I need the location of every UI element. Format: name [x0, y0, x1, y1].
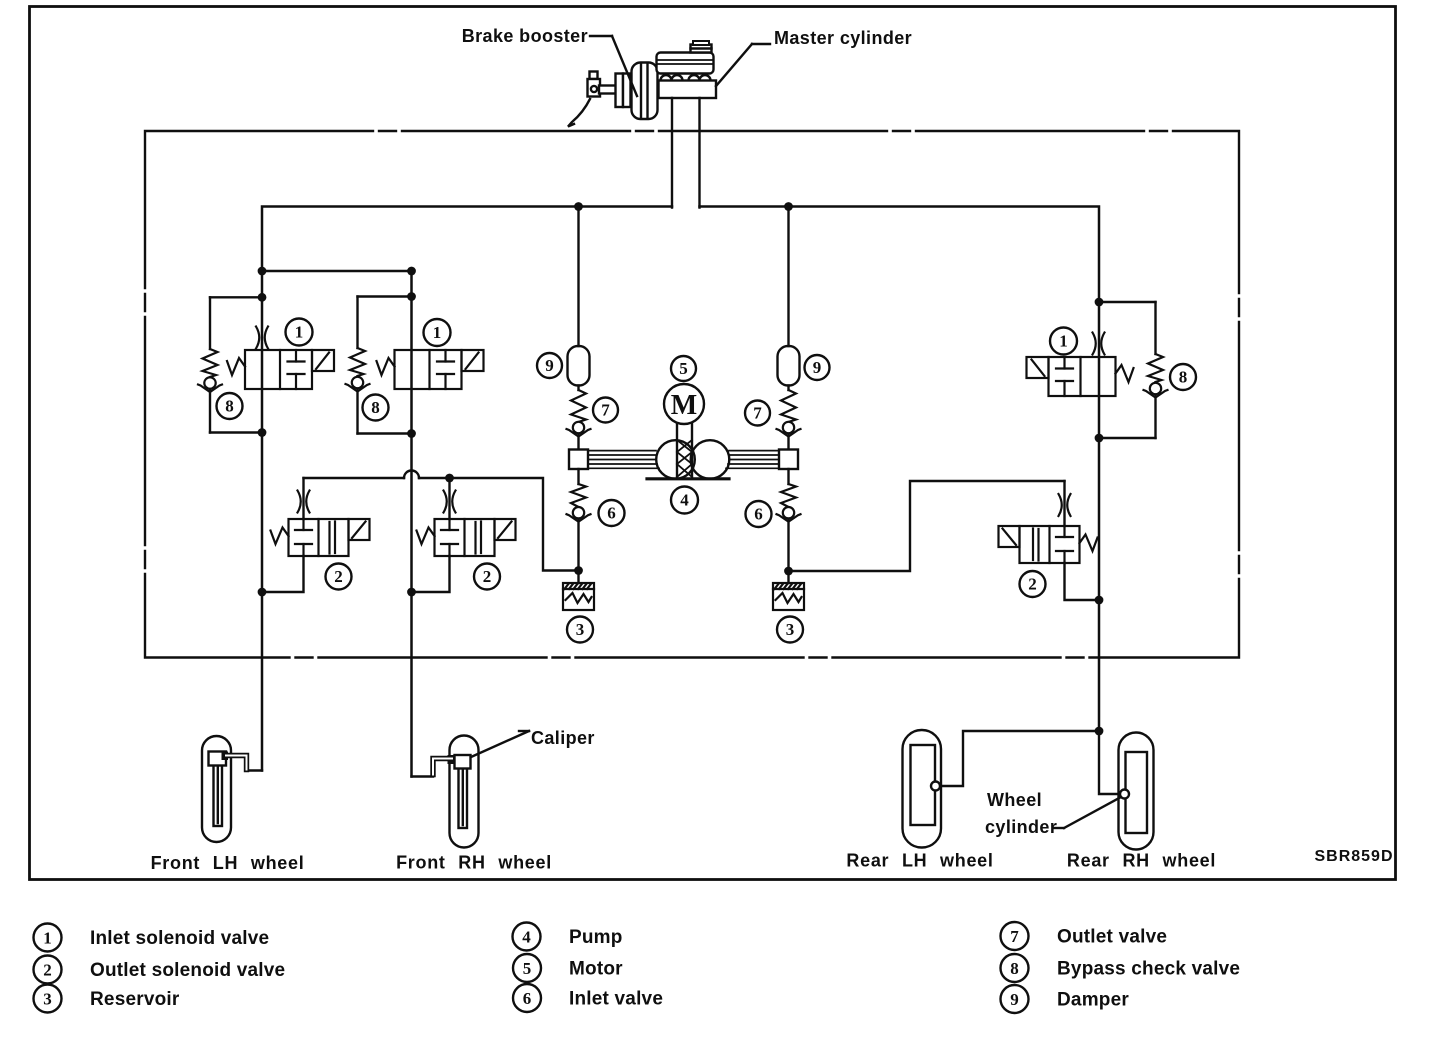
junction dot bypass top rear — [1095, 298, 1104, 307]
pump 4 eccentric cam crosshatch — [677, 440, 692, 477]
svg-text:5: 5 — [523, 959, 532, 978]
wire: pump piston right to inlet valve 6 — [787, 469, 789, 484]
inlet valve 6 left spring — [571, 484, 586, 507]
wire: front LH to caliper — [246, 769, 262, 771]
reservoir 3 left — [563, 583, 594, 610]
svg-text:Bypass check valve: Bypass check valve — [1057, 959, 1240, 980]
pump 4 left chamber — [656, 440, 695, 479]
svg-text:Inlet solenoid valve: Inlet solenoid valve — [90, 928, 269, 949]
circled 3 left — [567, 617, 593, 643]
legend circled 1 — [34, 924, 62, 952]
svg-text:8: 8 — [225, 397, 234, 416]
legend circled 6 — [513, 984, 541, 1012]
wire: valve 7 right to pump piston — [787, 434, 789, 450]
circled 9 right — [805, 355, 830, 380]
motor 5 circle — [664, 384, 704, 424]
svg-text:Motor: Motor — [569, 959, 623, 980]
svg-text:4: 4 — [522, 928, 531, 947]
pump piston rod lines left — [588, 451, 659, 469]
svg-text:5: 5 — [679, 359, 688, 378]
wire: valve 7 left to pump piston — [577, 434, 579, 450]
svg-text:1: 1 — [1059, 332, 1068, 351]
svg-text:4: 4 — [680, 491, 689, 510]
outlet valve 7 right ball — [777, 422, 801, 437]
outer border frame — [30, 7, 1396, 880]
rear RH wheel tire — [1119, 733, 1154, 850]
wire: master cylinder secondary port down — [698, 98, 700, 208]
svg-text:2: 2 — [1028, 575, 1037, 594]
circled 8 rear — [1170, 364, 1196, 390]
leader line Caliper — [519, 730, 529, 732]
svg-text:8: 8 — [1010, 959, 1019, 978]
svg-text:Inlet valve: Inlet valve — [569, 989, 663, 1010]
rear LH wheel tire — [903, 730, 942, 848]
wire: valve 2 rear outlet bottom — [1065, 563, 1100, 600]
wire: valve 2 rear pilot top — [1063, 481, 1065, 526]
pump 4 base ground line — [647, 477, 729, 480]
pump piston right — [779, 450, 798, 470]
svg-text:SBR859D: SBR859D — [1314, 848, 1393, 865]
svg-text:7: 7 — [1010, 927, 1019, 946]
circled 1 front LH — [286, 319, 313, 346]
wire: right circuit bus — [700, 207, 1100, 303]
wire: bypass 8 front LH bottom leg — [209, 390, 211, 433]
rear LH wheel drum — [911, 745, 936, 825]
svg-text:3: 3 — [43, 990, 52, 1009]
wire: valve 2 front LH outlet bottom — [262, 556, 304, 592]
front LH caliper — [209, 752, 227, 766]
wire: damper to outlet valve 7 left — [577, 386, 579, 391]
legend circled 2 — [34, 956, 62, 984]
circled 7 right — [745, 401, 770, 426]
wire: front LH channel vertical — [261, 271, 264, 771]
junction dot bypass top front LH — [258, 293, 267, 302]
rear RH wheel cylinder port — [1120, 790, 1129, 799]
circled 8 front RH — [363, 395, 389, 421]
svg-text:6: 6 — [754, 505, 763, 524]
wire: valve 2 front RH outlet bottom — [412, 556, 450, 592]
master cylinder (grommets) — [661, 75, 672, 86]
damper 9 left — [568, 346, 590, 386]
svg-text:9: 9 — [545, 356, 554, 375]
outlet solenoid valve 2 rear (mirrored) — [999, 526, 1098, 563]
circled 3 right — [777, 617, 803, 643]
front RH wheel tire — [450, 736, 479, 848]
brake booster (flange discs) — [616, 74, 624, 108]
svg-text:3: 3 — [576, 620, 585, 639]
leader line Master cylinder — [752, 43, 770, 45]
master cylinder (reservoir cap) — [691, 45, 712, 53]
circled 7 left — [593, 398, 618, 423]
brake booster (push rod) — [599, 86, 617, 94]
wire: bypass 8 front LH top — [210, 296, 262, 298]
pump 4 drive shaft — [676, 424, 678, 478]
legend circled 4 — [513, 923, 541, 951]
circled 2 front RH — [474, 564, 500, 590]
pump piston rod lines right — [726, 451, 779, 469]
wire: front RH channel vertical — [410, 271, 413, 777]
inlet valve 6 right spring — [781, 484, 796, 507]
inlet solenoid valve 1 front RH — [377, 350, 484, 389]
junction dot left bus / damper left — [574, 202, 583, 211]
svg-text:Reservoir: Reservoir — [90, 989, 180, 1010]
junction dot reservoir left — [574, 566, 583, 575]
svg-text:8: 8 — [1179, 368, 1188, 387]
wire: rear split to rear LH wheel — [940, 731, 1099, 786]
svg-text:Front RH wheel: Front RH wheel — [396, 853, 552, 873]
junction dot bypass bottom front RH — [407, 429, 416, 438]
wire: bypass 8 front RH bottom leg — [356, 389, 358, 434]
wire: pump piston left to inlet valve 6 — [577, 469, 579, 484]
legend circled 8 — [1001, 954, 1029, 982]
svg-text:7: 7 — [753, 404, 762, 423]
outlet valve 7 right spring — [781, 390, 796, 422]
svg-text:2: 2 — [483, 567, 492, 586]
legend circled 9 — [1001, 985, 1029, 1013]
inlet valve 6 left ball — [567, 507, 591, 522]
wire: bypass 8 rear bottom leg — [1154, 395, 1156, 438]
junction dot front branch split — [258, 267, 267, 276]
svg-text:cylinder: cylinder — [985, 817, 1057, 837]
legend circled 3 — [34, 985, 62, 1013]
wire: bypass 8 rear top — [1099, 301, 1156, 303]
wire: bypass 8 front LH left leg — [209, 297, 211, 349]
wire: bypass 8 front RH top — [358, 295, 412, 297]
bypass check valve 8 front LH ball — [198, 377, 222, 392]
pump piston left — [569, 450, 588, 470]
bypass check valve 8 front RH spring — [350, 348, 365, 376]
svg-text:6: 6 — [607, 504, 616, 523]
front RH caliper — [455, 755, 471, 769]
svg-text:Front LH wheel: Front LH wheel — [151, 853, 305, 873]
svg-text:Caliper: Caliper — [531, 728, 595, 748]
wire: outlet valves return line to reservoir (left) with bridge hop — [304, 477, 405, 479]
bypass check valve 8 front RH ball — [346, 377, 370, 392]
master cylinder (fluid reservoir) — [657, 53, 714, 74]
circled 8 front LH — [217, 393, 243, 419]
bypass check valve 8 front LH spring — [203, 349, 218, 377]
svg-text:Damper: Damper — [1057, 990, 1129, 1011]
circled 1 front RH — [424, 319, 451, 346]
outlet solenoid valve 2 front LH — [271, 519, 370, 556]
front RH brake pipe — [433, 759, 452, 775]
wire: damper to outlet valve 7 right — [787, 386, 789, 391]
svg-text:2: 2 — [334, 567, 343, 586]
junction dot valve 2 tap front RH — [407, 588, 416, 597]
svg-text:Wheel: Wheel — [987, 790, 1042, 810]
reservoir 3 right — [773, 583, 804, 610]
svg-text:Rear LH wheel: Rear LH wheel — [846, 851, 993, 871]
circled 9 left — [537, 353, 562, 378]
svg-text:Master cylinder: Master cylinder — [774, 28, 912, 48]
legend circled 7 — [1001, 922, 1029, 950]
circled 6 right — [746, 501, 772, 527]
wire: inlet valve 6 right down to reservoir — [787, 519, 789, 583]
wire: left pump column from bus — [577, 207, 579, 347]
svg-text:3: 3 — [786, 620, 795, 639]
svg-text:1: 1 — [295, 323, 304, 342]
wire: inlet valve 6 left down to reservoir — [577, 519, 579, 583]
rear RH wheel drum — [1126, 752, 1148, 833]
wire: front RH to caliper — [412, 775, 434, 777]
bypass check valve 8 rear spring — [1148, 354, 1163, 382]
junction dot front RH branch corner — [407, 267, 416, 276]
wire: rear drop to rear RH wheel — [1099, 731, 1120, 794]
wire: rear channel vertical — [1098, 302, 1101, 731]
rear LH wheel cylinder port — [931, 782, 940, 791]
svg-text:7: 7 — [601, 401, 610, 420]
wire: left circuit bus — [262, 207, 672, 272]
pump 4 right chamber — [691, 440, 730, 479]
svg-text:Brake booster: Brake booster — [462, 26, 588, 46]
front RH brake disc — [459, 759, 468, 828]
legend circled 5 — [513, 954, 541, 982]
svg-text:Pump: Pump — [569, 927, 623, 948]
wire: valve 2 front RH pilot top — [448, 478, 450, 519]
junction dot right bus / damper right — [784, 202, 793, 211]
junction dot bypass bottom front LH — [258, 428, 267, 437]
wire: valve 2 front LH pilot top — [302, 478, 304, 519]
junction dot reservoir right — [784, 567, 793, 576]
damper 9 right — [778, 346, 800, 386]
brake booster (clevis) — [590, 72, 598, 80]
orifice above inlet solenoid valve 1 front LH — [256, 327, 268, 349]
orifice above outlet solenoid valve 2 front LH — [298, 491, 310, 513]
wire: branch to front RH channel — [262, 270, 412, 273]
wire: right pump column from bus — [787, 207, 789, 347]
circled 5 — [671, 356, 696, 381]
svg-text:Outlet solenoid valve: Outlet solenoid valve — [90, 960, 285, 981]
svg-text:8: 8 — [371, 398, 380, 417]
orifice above inlet solenoid valve 1 rear — [1093, 333, 1105, 355]
brake booster (vacuum booster shell) — [632, 63, 658, 120]
svg-text:1: 1 — [43, 929, 52, 948]
master cylinder (body) — [659, 81, 717, 99]
junction dot bypass bottom rear — [1095, 434, 1104, 443]
junction dot valve 2 tap front LH — [258, 588, 267, 597]
svg-text:Rear RH wheel: Rear RH wheel — [1067, 851, 1216, 871]
svg-text:1: 1 — [433, 323, 442, 342]
outlet solenoid valve 2 front RH — [417, 519, 516, 556]
front LH brake pipe — [226, 756, 247, 770]
leader line Wheel cylinder — [1053, 827, 1064, 829]
svg-text:9: 9 — [1010, 990, 1019, 1009]
bypass check valve 8 rear ball — [1144, 383, 1168, 398]
inlet solenoid valve 1 rear (mirrored) — [1027, 357, 1134, 396]
junction dot bypass top front RH — [407, 292, 416, 301]
svg-text:Outlet valve: Outlet valve — [1057, 927, 1167, 948]
circled 1 rear — [1050, 328, 1077, 355]
orifice above outlet solenoid valve 2 front RH — [444, 491, 456, 513]
junction dot return line front RH — [445, 474, 454, 483]
ABS actuator dash-dot boundary box — [145, 131, 1239, 658]
junction dot rear wheel split — [1095, 727, 1104, 736]
outlet valve 7 left spring — [571, 390, 586, 422]
leader line Brake booster — [590, 35, 612, 37]
circled 6 left — [599, 500, 625, 526]
front LH wheel tire — [202, 736, 231, 842]
svg-text:6: 6 — [523, 989, 532, 1008]
circled 4 — [671, 487, 698, 514]
svg-text:2: 2 — [43, 961, 52, 980]
brake booster (pedal arm) — [568, 99, 590, 127]
junction dot valve 2 tap rear — [1095, 596, 1104, 605]
front LH brake disc — [214, 757, 223, 826]
svg-text:M: M — [671, 390, 697, 421]
svg-text:9: 9 — [813, 358, 822, 377]
inlet valve 6 right ball — [777, 507, 801, 522]
outlet valve 7 left ball — [567, 422, 591, 437]
wire: rear return line from reservoir to valve 2 rear — [789, 481, 1065, 571]
circled 2 rear — [1020, 571, 1046, 597]
inlet solenoid valve 1 front LH — [227, 350, 334, 389]
orifice above outlet solenoid valve 2 rear — [1059, 494, 1071, 516]
circled 2 front LH — [326, 564, 352, 590]
wire: master cylinder primary port down — [671, 98, 673, 208]
